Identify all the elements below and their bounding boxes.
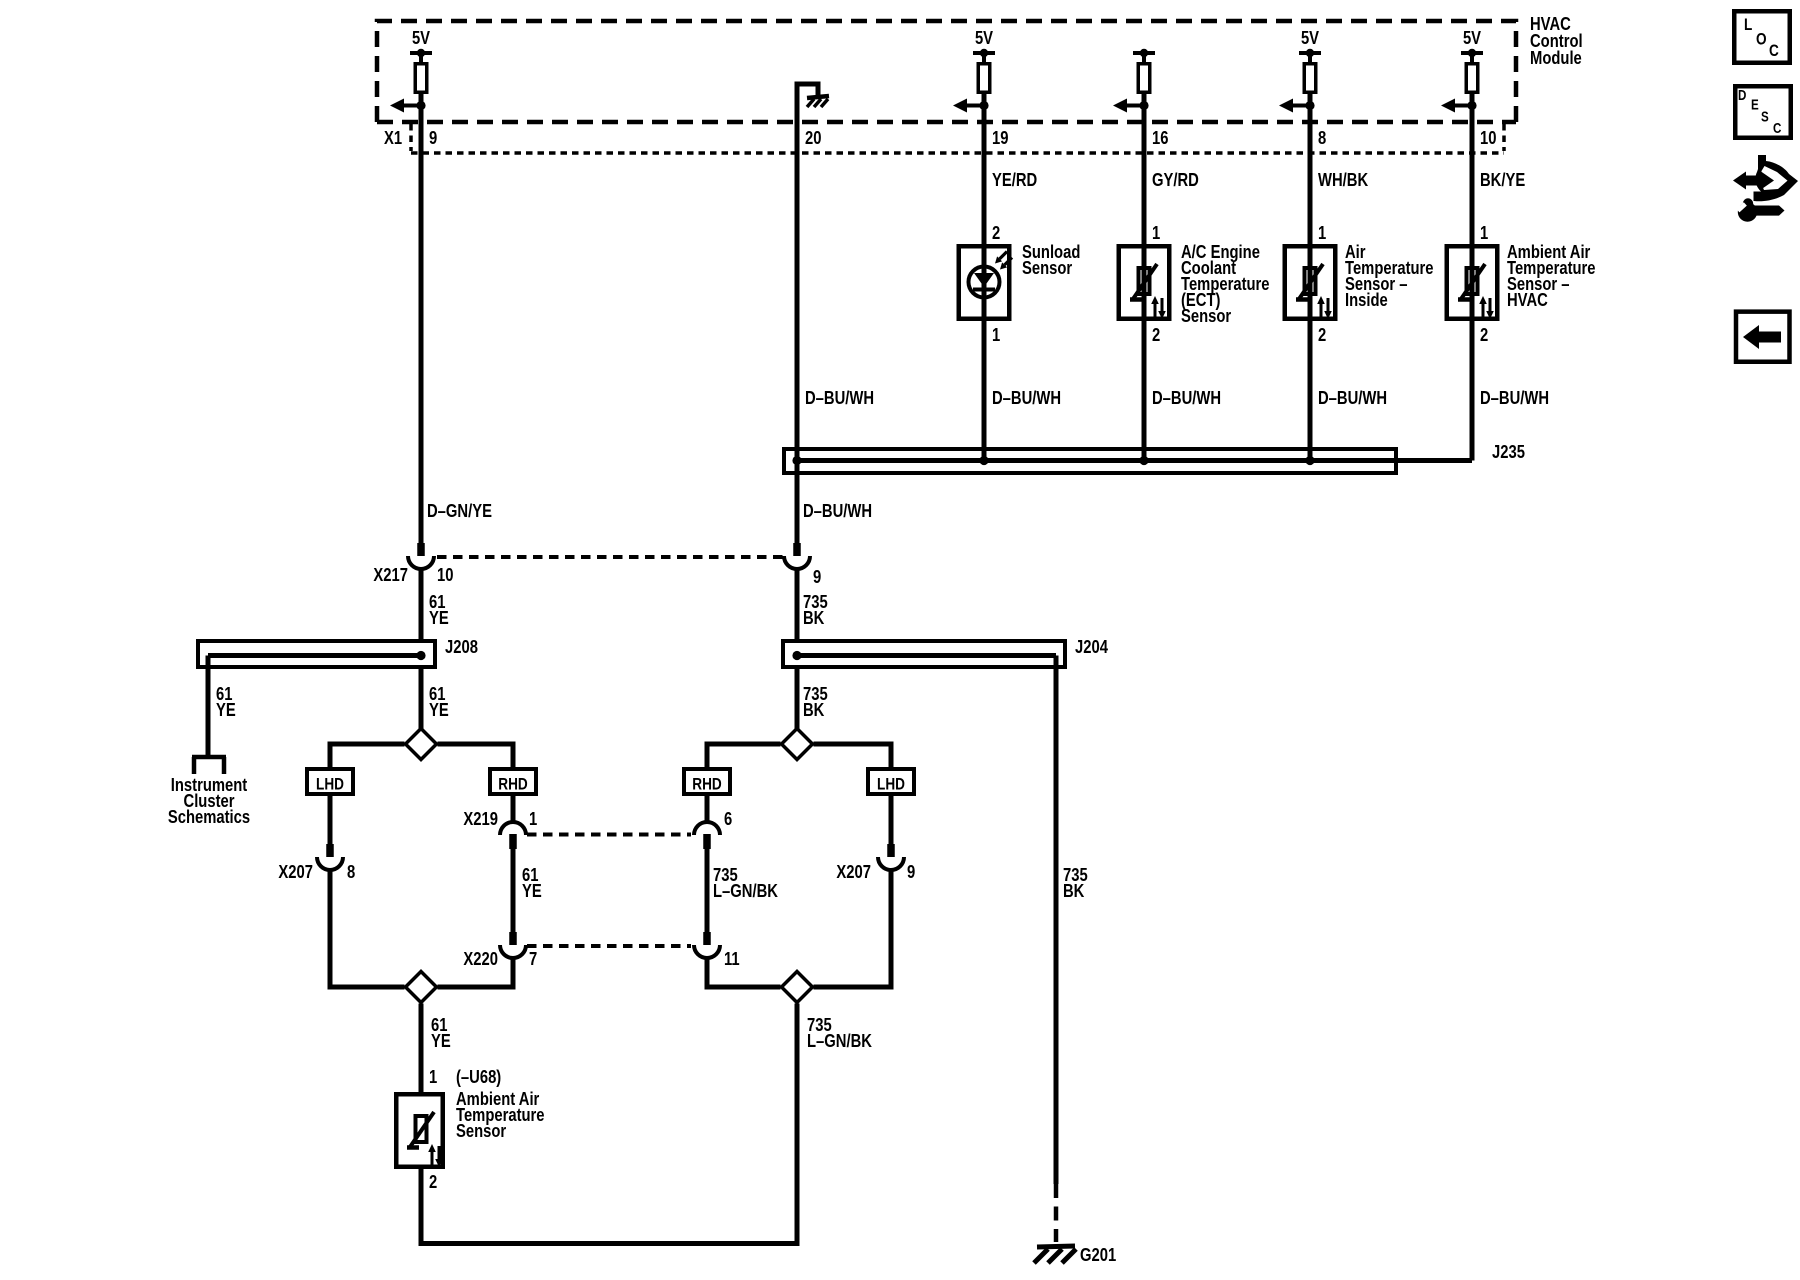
- svg-text:D–BU/WH: D–BU/WH: [1480, 387, 1549, 408]
- wire diamond to LHD left: [330, 744, 405, 769]
- svg-text:6: 6: [724, 808, 732, 829]
- air temp pin 1 label: [1318, 222, 1326, 243]
- sunload pin 1 label: [992, 324, 1000, 345]
- wire LHD-right to X207-9: [889, 796, 894, 844]
- ambient air temperature sensor U68 box: [396, 1094, 443, 1167]
- 5V supply terminal pin 19: [973, 27, 995, 62]
- signal arrow pin 19: [953, 99, 989, 113]
- ambient air temperature sensor HVAC box: [1447, 246, 1498, 319]
- svg-text:S: S: [1761, 108, 1769, 125]
- wire diamond to RHD left: [438, 744, 514, 769]
- resistor R-pin8: [1304, 64, 1316, 93]
- svg-text:1: 1: [1318, 222, 1326, 243]
- wire label 735 BK (G201 wire): [1063, 864, 1088, 901]
- ambient HVAC pin 2 label: [1480, 324, 1488, 345]
- U68 pin 2 label: [429, 1171, 437, 1192]
- connector X207 pin 9: [878, 844, 904, 870]
- svg-text:BK: BK: [803, 607, 824, 628]
- pin number 10: [1480, 127, 1496, 148]
- wire label 735 BK (below J204): [803, 683, 828, 720]
- wire U68 return loop: [421, 1004, 797, 1244]
- off-page bracket (instrument cluster): [192, 757, 226, 774]
- svg-text:D–GN/YE: D–GN/YE: [427, 500, 492, 521]
- svg-text:LHD: LHD: [316, 775, 344, 794]
- connector X219 label: [463, 808, 498, 829]
- junction dot J235-2: [979, 456, 988, 465]
- A/C ECT sensor box: [1119, 246, 1170, 319]
- wire RHD-right to X219-6: [705, 796, 710, 823]
- svg-text:O: O: [1756, 30, 1767, 49]
- junction dot J235-4: [1305, 456, 1314, 465]
- resistor R-pin16: [1138, 64, 1150, 93]
- connector X220 pin 7: [500, 932, 526, 958]
- wire X217-10 to J208: [419, 568, 424, 641]
- svg-text:2: 2: [429, 1171, 437, 1192]
- svg-text:1: 1: [429, 1066, 437, 1087]
- svg-text:LHD: LHD: [877, 775, 905, 794]
- HVAC Control Module dashed outline: [377, 21, 1516, 122]
- resistor R-pin10: [1466, 64, 1478, 93]
- X220 pin 11 label: [724, 948, 740, 969]
- pin number 19: [992, 127, 1008, 148]
- svg-text:BK: BK: [1063, 880, 1084, 901]
- connector X217 label: [373, 564, 408, 585]
- wire LHD-left to X207-8: [328, 796, 333, 844]
- U68 pin 1 label: [429, 1066, 437, 1087]
- svg-text:1: 1: [1480, 222, 1488, 243]
- svg-text:YE: YE: [429, 607, 449, 628]
- svg-text:10: 10: [437, 564, 453, 585]
- wire RHD-left to X219-1: [511, 796, 516, 823]
- Sunload Sensor label: [1022, 241, 1080, 278]
- svg-text:19: 19: [992, 127, 1008, 148]
- X207 pin 8 label: [347, 861, 355, 882]
- svg-text:YE: YE: [522, 880, 542, 901]
- ambient HVAC pin 1 label: [1480, 222, 1488, 243]
- wire pin 20 (ground to J235): [797, 84, 818, 543]
- pin number 16: [1152, 127, 1168, 148]
- X217 pin 9 label: [813, 566, 821, 587]
- svg-text:X207: X207: [278, 861, 313, 882]
- svg-text:J204: J204: [1075, 636, 1109, 657]
- wire label GY/RD: [1152, 169, 1199, 190]
- 5V supply terminal pin 8: [1299, 27, 1321, 62]
- J204 bus wire: [797, 653, 1056, 658]
- X219 mating dashed line: [527, 833, 691, 837]
- connector X219 pin 6: [694, 822, 720, 849]
- wire X207-9 to bottom-right diamond: [814, 869, 892, 987]
- svg-text:D–BU/WH: D–BU/WH: [992, 387, 1061, 408]
- wire J204 to G201 (solid): [1054, 656, 1059, 1185]
- wire pin 16 (module to J235): [1142, 62, 1147, 461]
- svg-text:J208: J208: [445, 636, 478, 657]
- svg-text:D: D: [1738, 87, 1746, 104]
- air temp pin 2 label: [1318, 324, 1326, 345]
- connector X220 pin 11: [694, 932, 720, 958]
- wire pin 9 (module to X217): [419, 62, 424, 543]
- svg-text:2: 2: [992, 222, 1000, 243]
- signal arrow pin 10: [1441, 99, 1477, 113]
- svg-text:J235: J235: [1492, 441, 1525, 462]
- signal arrow pin 8: [1279, 99, 1315, 113]
- svg-text:9: 9: [429, 127, 437, 148]
- X207 pin 9 label: [907, 861, 915, 882]
- wire label 735 L-GN/BK (X219-X220): [713, 864, 778, 901]
- option splice diamond (right top): [782, 729, 813, 760]
- Ambient Air Temperature Sensor label: [456, 1088, 545, 1141]
- Air Temperature Sensor Inside label: [1345, 241, 1434, 310]
- X219 pin 1 label: [529, 808, 537, 829]
- ECT pin 1 label: [1152, 222, 1160, 243]
- connector X220 label: [463, 948, 498, 969]
- wire to G201 (dashed): [1054, 1184, 1059, 1242]
- svg-text:1: 1: [529, 808, 537, 829]
- air temperature sensor inside box: [1285, 246, 1336, 319]
- wire label 61 YE (above J208): [429, 591, 449, 628]
- junction dot J204: [792, 651, 801, 660]
- svg-text:2: 2: [1480, 324, 1488, 345]
- wire label 61 YE (X219-X220): [522, 864, 542, 901]
- wire pin 19 (module to J235): [982, 62, 987, 461]
- svg-text:YE: YE: [431, 1030, 451, 1051]
- svg-text:11: 11: [724, 948, 740, 969]
- wire X207-8 to bottom diamond: [330, 869, 405, 987]
- Instrument Cluster Schematics label: [168, 774, 250, 827]
- splice J235 label: [1492, 441, 1525, 462]
- LHD box (right): [868, 769, 914, 794]
- X219 pin 6 label: [724, 808, 732, 829]
- wire label WH/BK: [1318, 169, 1368, 190]
- svg-text:G201: G201: [1080, 1244, 1116, 1265]
- svg-text:RHD: RHD: [692, 775, 721, 794]
- wire label 61 YE (to U68): [431, 1014, 451, 1051]
- thermistor symbol (ECT): [1130, 264, 1166, 319]
- svg-text:9: 9: [907, 861, 915, 882]
- svg-text:C: C: [1773, 120, 1782, 137]
- connector X1 label: [384, 127, 402, 148]
- thermistor symbol (air temp inside): [1296, 264, 1332, 319]
- X220 pin 7 label: [529, 948, 537, 969]
- svg-text:X220: X220: [463, 948, 498, 969]
- svg-text:BK/YE: BK/YE: [1480, 169, 1525, 190]
- pin number 20: [805, 127, 821, 148]
- svg-text:YE: YE: [429, 699, 449, 720]
- svg-text:L–GN/BK: L–GN/BK: [807, 1030, 872, 1051]
- svg-text:D–BU/WH: D–BU/WH: [1152, 387, 1221, 408]
- svg-text:2: 2: [1152, 324, 1160, 345]
- connector X217 pin 10: [408, 543, 434, 569]
- svg-text:X207: X207: [836, 861, 871, 882]
- svg-text:Module: Module: [1530, 47, 1582, 68]
- svg-text:10: 10: [1480, 127, 1496, 148]
- wire pin 8 (module to J235): [1308, 62, 1313, 461]
- X217 mating dashed line: [437, 555, 784, 559]
- A/C Engine Coolant Temperature (ECT) Sensor label: [1181, 241, 1270, 326]
- DESC nav button: [1735, 86, 1791, 138]
- wire label 61 YE (instrument branch): [216, 683, 236, 720]
- junction dot J208: [416, 651, 425, 660]
- LHD box (left): [307, 769, 353, 794]
- connector X207 pin 8: [317, 844, 343, 870]
- wire X217-9 to J204: [795, 568, 800, 641]
- X220 mating dashed line: [527, 944, 691, 948]
- wire label D-GN/YE: [427, 500, 492, 521]
- svg-text:HVAC: HVAC: [1507, 289, 1548, 310]
- svg-text:5V: 5V: [412, 27, 431, 48]
- svg-text:9: 9: [813, 566, 821, 587]
- J208 bus wire: [208, 653, 424, 658]
- wire X219-1 to X220-7: [511, 848, 516, 933]
- connector X207 label (right): [836, 861, 871, 882]
- wire label D-BU/WH (pin 10): [1480, 387, 1549, 408]
- LOC nav button: [1734, 11, 1790, 63]
- photodiode symbol: [969, 267, 1000, 298]
- junction dot J235-1: [792, 456, 801, 465]
- svg-text:(–U68): (–U68): [456, 1066, 501, 1087]
- svg-text:GY/RD: GY/RD: [1152, 169, 1199, 190]
- wire label D-BU/WH (pin 20): [805, 387, 874, 408]
- ECT pin 2 label: [1152, 324, 1160, 345]
- connector X219 pin 1: [500, 822, 526, 849]
- wire label YE/RD: [992, 169, 1037, 190]
- pin number 8: [1318, 127, 1326, 148]
- splice pack J208: [198, 641, 435, 667]
- wire X220-11 to bottom-right diamond: [707, 957, 781, 987]
- svg-text:8: 8: [347, 861, 355, 882]
- svg-text:BK: BK: [803, 699, 824, 720]
- svg-text:D–BU/WH: D–BU/WH: [803, 500, 872, 521]
- svg-text:E: E: [1751, 96, 1759, 113]
- wire J208 to LHD/RHD diamond: [419, 669, 424, 729]
- svg-text:20: 20: [805, 127, 821, 148]
- Ambient Air Temperature Sensor HVAC label: [1507, 241, 1596, 310]
- RHD box (right): [684, 769, 730, 794]
- ground (HVAC internal): [807, 96, 829, 107]
- splice pack J235: [784, 449, 1396, 473]
- light ray arrows: [995, 252, 1012, 270]
- wire diamond to LHD right: [814, 744, 892, 769]
- sunload pin 2 label: [992, 222, 1000, 243]
- 5V supply terminal pin 9: [410, 27, 432, 62]
- wire pin 10 (module to J235): [1470, 62, 1475, 461]
- wire label D-BU/WH (below J235): [803, 500, 872, 521]
- wire label D-BU/WH (pin 16): [1152, 387, 1221, 408]
- wire X220-7 to bottom diamond: [438, 957, 514, 987]
- thermistor symbol (U68): [407, 1112, 443, 1167]
- svg-text:Schematics: Schematics: [168, 806, 250, 827]
- wire label D-BU/WH (pin 8): [1318, 387, 1387, 408]
- wire label 61 YE (below J208): [429, 683, 449, 720]
- HVAC Control Module label: [1530, 13, 1583, 68]
- wire diamond to RHD right: [707, 744, 781, 769]
- svg-text:5V: 5V: [1463, 27, 1482, 48]
- svg-text:RHD: RHD: [498, 775, 527, 794]
- svg-text:L–GN/BK: L–GN/BK: [713, 880, 778, 901]
- wire label 735 L-GN/BK (below right diamond): [807, 1014, 872, 1051]
- J235 bus wire: [797, 458, 1472, 463]
- ground G201 label: [1080, 1244, 1116, 1265]
- connector X207 label (left): [278, 861, 313, 882]
- svg-text:YE/RD: YE/RD: [992, 169, 1037, 190]
- option splice diamond (right bottom): [782, 972, 813, 1003]
- svg-text:8: 8: [1318, 127, 1326, 148]
- connector X1 dashed row: [411, 124, 1504, 153]
- splice J208 label: [445, 636, 478, 657]
- connector X217 pin 9: [784, 543, 810, 569]
- svg-text:X1: X1: [384, 127, 402, 148]
- supply terminal pin 16: [1133, 49, 1155, 62]
- svg-text:Sensor: Sensor: [1181, 305, 1232, 326]
- 5V supply terminal pin 10: [1461, 27, 1483, 62]
- svg-text:WH/BK: WH/BK: [1318, 169, 1368, 190]
- thermistor symbol (ambient HVAC): [1458, 264, 1494, 319]
- svg-text:5V: 5V: [1301, 27, 1320, 48]
- option splice diamond (left bottom): [406, 972, 437, 1003]
- X217 pin 10 label: [437, 564, 453, 585]
- wire label D-BU/WH (pin 19): [992, 387, 1061, 408]
- wire J208 to instrument cluster: [206, 656, 211, 758]
- svg-text:1: 1: [1152, 222, 1160, 243]
- back arrow button: [1736, 312, 1790, 362]
- svg-text:D–BU/WH: D–BU/WH: [1318, 387, 1387, 408]
- resistor R-pin19: [978, 64, 990, 93]
- svg-text:Sensor: Sensor: [456, 1120, 507, 1141]
- svg-text:2: 2: [1318, 324, 1326, 345]
- svg-text:D–BU/WH: D–BU/WH: [805, 387, 874, 408]
- svg-text:X217: X217: [373, 564, 408, 585]
- svg-text:16: 16: [1152, 127, 1168, 148]
- sunload sensor box: [959, 246, 1010, 319]
- svg-text:X219: X219: [463, 808, 498, 829]
- junction dot J235-3: [1139, 456, 1148, 465]
- wire label 735 BK (above J204): [803, 591, 828, 628]
- wire J204 to RHD/LHD diamond: [795, 669, 800, 729]
- RHD box (left): [490, 769, 536, 794]
- pin number 9: [429, 127, 437, 148]
- svg-text:1: 1: [992, 324, 1000, 345]
- signal arrow pin 16: [1113, 99, 1149, 113]
- svg-text:5V: 5V: [975, 27, 994, 48]
- option label (-U68): [456, 1066, 501, 1087]
- svg-text:L: L: [1744, 16, 1752, 35]
- svg-text:7: 7: [529, 948, 537, 969]
- resistor R-pin9: [415, 64, 427, 93]
- wire bottom diamond to U68 sensor: [419, 1004, 424, 1095]
- svg-text:C: C: [1769, 42, 1779, 61]
- splice pack J204: [783, 641, 1065, 667]
- splice J204 label: [1075, 636, 1109, 657]
- option splice diamond (left top): [406, 729, 437, 760]
- ground G201: [1034, 1246, 1076, 1263]
- diagnostic navigation icon: [1733, 155, 1798, 222]
- svg-text:YE: YE: [216, 699, 236, 720]
- signal arrow pin 9: [390, 99, 426, 113]
- wire X219-6 to X220-11: [705, 848, 710, 933]
- svg-text:Sensor: Sensor: [1022, 257, 1073, 278]
- wire label BK/YE: [1480, 169, 1525, 190]
- svg-text:Inside: Inside: [1345, 289, 1388, 310]
